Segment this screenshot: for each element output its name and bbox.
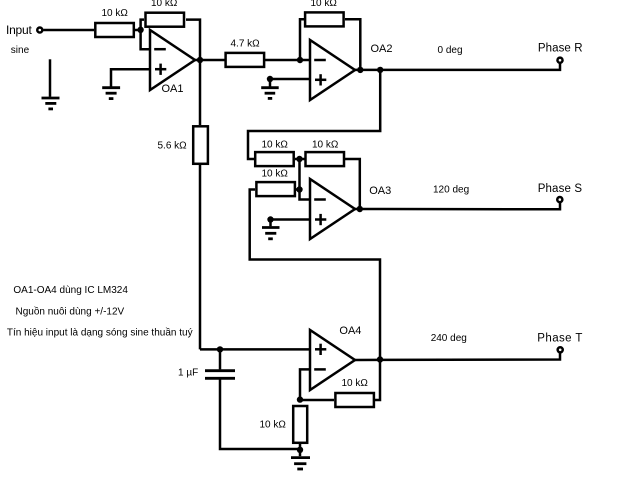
wire: junction up to feedback resistor R_f1 bbox=[141, 20, 144, 30]
svg-text:10 kΩ: 10 kΩ bbox=[102, 8, 129, 19]
wire: R8 bottom stub bbox=[299, 444, 302, 450]
svg-text:Nguồn nuôi dùng +/-12V: Nguồn nuôi dùng +/-12V bbox=[16, 305, 125, 317]
svg-text:0 deg: 0 deg bbox=[438, 45, 463, 56]
node: OA1 output bbox=[197, 57, 203, 63]
wire: input terminal to R_in bbox=[43, 29, 94, 32]
svg-text:Phase T: Phase T bbox=[537, 332, 582, 344]
svg-text:10 kΩ: 10 kΩ bbox=[311, 0, 338, 9]
op-amp OA4 bbox=[310, 325, 361, 390]
terminal Phase R bbox=[438, 42, 583, 62]
node: OA2 ground stub bbox=[267, 76, 273, 82]
resistor R6 5.6 kΩ (vertical) bbox=[158, 126, 208, 164]
resistor R5 10 kΩ bbox=[256, 169, 295, 197]
wire: junction down to OA1 inverting input bbox=[141, 30, 150, 49]
resistor R2 4.7 kΩ bbox=[226, 38, 265, 67]
node: OA4 inverting junction bbox=[297, 396, 303, 402]
wire: OA4 inverting input branch bbox=[300, 369, 310, 399]
op-amp OA3 bbox=[310, 179, 391, 239]
svg-text:OA1: OA1 bbox=[162, 83, 184, 95]
wire: R_f1 to OA1 output node bbox=[186, 20, 200, 60]
svg-text:Tín hiệu input là dạng sóng si: Tín hiệu input là dạng sóng sine thuần t… bbox=[7, 327, 193, 339]
resistor R_f1 10 kΩ (OA1 feedback) bbox=[146, 0, 185, 27]
node: OA1 inverting input junction bbox=[137, 27, 143, 33]
capacitor C1 1 µF bbox=[178, 349, 235, 378]
svg-text:5.6 kΩ: 5.6 kΩ bbox=[158, 140, 188, 151]
svg-text:10 kΩ: 10 kΩ bbox=[262, 140, 289, 151]
node: R3/R4 junction bbox=[296, 156, 302, 162]
node: OA2 inverting input junction bbox=[297, 57, 303, 63]
wire: inverting junction to feedback resistor R7 bbox=[300, 399, 334, 402]
svg-text:10 kΩ: 10 kΩ bbox=[262, 169, 289, 180]
svg-text:Input: Input bbox=[6, 23, 32, 37]
note text block bbox=[7, 285, 193, 339]
wire: R5 to inverting branch bbox=[296, 188, 300, 191]
svg-text:240 deg: 240 deg bbox=[431, 333, 467, 344]
node: capacitor junction bbox=[217, 346, 223, 352]
wire: R_in to OA1 inverting node bbox=[135, 29, 141, 32]
wire: OA3 output to Phase S terminal bbox=[355, 203, 560, 210]
wire: OA2 output to Phase R terminal bbox=[355, 63, 560, 70]
resistor R3 10 kΩ bbox=[255, 140, 294, 167]
op-amp OA1 bbox=[150, 30, 195, 95]
input terminal bbox=[6, 23, 42, 56]
wire: junction down to OA3 inverting input bbox=[300, 159, 311, 200]
wire: capacitor bottom to ground node bbox=[220, 380, 300, 450]
node: OA3 ground stub bbox=[267, 216, 273, 222]
node: ground junction bbox=[297, 447, 303, 453]
svg-text:10 kΩ: 10 kΩ bbox=[342, 378, 369, 389]
svg-text:120 deg: 120 deg bbox=[433, 184, 469, 195]
node: OA4 output bbox=[377, 356, 383, 362]
wire: R3 to R4 bbox=[295, 158, 305, 161]
terminal Phase T bbox=[431, 332, 583, 352]
svg-text:10 kΩ: 10 kΩ bbox=[151, 0, 178, 9]
svg-text:4.7 kΩ: 4.7 kΩ bbox=[231, 38, 261, 49]
svg-text:OA1-OA4 dùng IC LM324: OA1-OA4 dùng IC LM324 bbox=[13, 285, 128, 296]
svg-text:Phase R: Phase R bbox=[538, 42, 583, 54]
resistor R8 10 kΩ (vertical, OA4 - to ground) bbox=[260, 406, 308, 443]
node: R5 junction on inverting branch bbox=[296, 186, 302, 192]
wire: OA4 output to Phase T terminal bbox=[355, 353, 560, 360]
wire: OA1 output to R2 bbox=[195, 59, 225, 62]
node: OA2 output bbox=[357, 67, 363, 73]
svg-text:1 µF: 1 µF bbox=[178, 368, 198, 379]
wire: OA2 output branch down to R3 bbox=[248, 70, 380, 159]
node: OA3 output bbox=[357, 206, 363, 212]
svg-text:10 kΩ: 10 kΩ bbox=[260, 420, 287, 431]
wire: R2 to OA2 inverting input bbox=[265, 59, 310, 62]
wire: OA1 output down through R6 to OA4 + input bbox=[200, 60, 310, 349]
resistor R_f2 10 kΩ (OA2 feedback) bbox=[305, 0, 344, 26]
resistor R_in 10 kΩ bbox=[95, 8, 134, 37]
ground (OA1 + input) bbox=[102, 88, 120, 99]
wire: junction up to feedback resistor R_f2 bbox=[300, 19, 304, 60]
terminal Phase S bbox=[433, 183, 582, 202]
wire: OA2 non-inverting input to ground bbox=[270, 78, 310, 81]
ground (OA3 + input) bbox=[262, 220, 280, 239]
resistor R4 10 kΩ bbox=[306, 140, 345, 167]
svg-text:sine: sine bbox=[11, 45, 30, 56]
wire: R7 to OA4 output bbox=[375, 360, 380, 400]
svg-text:Phase S: Phase S bbox=[538, 183, 583, 195]
ground (input reference) bbox=[42, 59, 60, 109]
svg-text:OA4: OA4 bbox=[339, 325, 361, 337]
wire: OA1 non-inverting input to ground bbox=[111, 69, 150, 86]
wire: R_f2 to OA2 output bbox=[345, 19, 360, 70]
wire: R5 left down to OA4 output branch bbox=[250, 190, 380, 360]
svg-text:OA3: OA3 bbox=[369, 185, 391, 197]
ground (OA4 network) bbox=[291, 450, 310, 469]
svg-text:OA2: OA2 bbox=[371, 43, 393, 55]
svg-text:10 kΩ: 10 kΩ bbox=[312, 140, 339, 151]
op-amp OA2 bbox=[310, 40, 393, 100]
wire: R4 to OA3 output (feedback) bbox=[345, 159, 360, 209]
resistor R7 10 kΩ (OA4 feedback) bbox=[335, 378, 374, 407]
node: OA2 output branch bbox=[377, 67, 383, 73]
wire: OA3 non-inverting input to ground bbox=[271, 218, 311, 221]
ground (OA2 + input) bbox=[261, 79, 279, 98]
